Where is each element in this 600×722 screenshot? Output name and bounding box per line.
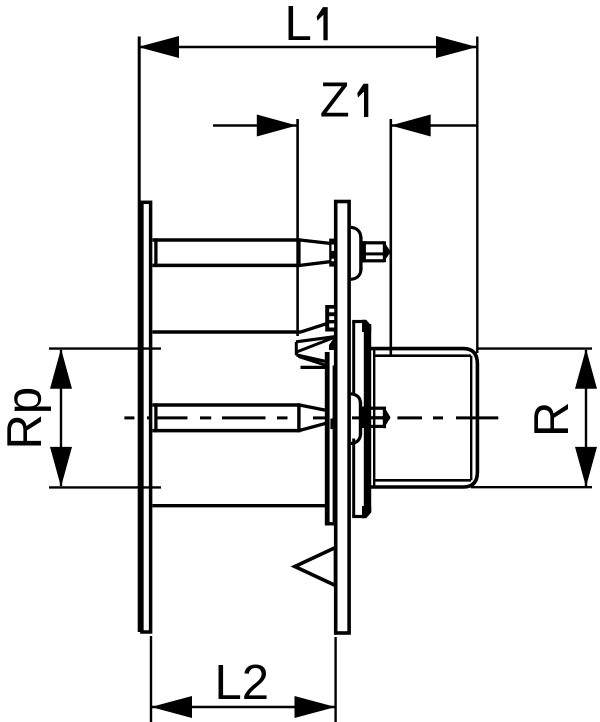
part: hub ring left edge lower segment	[352, 439, 355, 517]
part: left flange plate 1	[142, 202, 151, 632]
part: top screw left end face	[154, 238, 157, 267]
part: claw lower outer diagonal	[297, 355, 329, 362]
dimension R top extension line	[477, 347, 592, 349]
part: middle screw right end face	[297, 403, 300, 432]
part: middle stud trumpet face	[359, 402, 362, 435]
part: male thread end chamfer line	[470, 356, 472, 481]
part: middle screw taper bottom	[299, 423, 327, 430]
part: middle screw shaft top edge	[153, 403, 300, 407]
part: top stud crest top	[361, 241, 384, 244]
svg-text:L: L	[285, 0, 312, 51]
part: middle stud cone point	[384, 407, 390, 428]
part: socket inner line above middle screw	[333, 366, 336, 523]
part: hidden screw tip ladder	[325, 305, 337, 332]
dimension Z1 right arrow	[391, 115, 431, 137]
part: top screw taper top	[299, 240, 330, 244]
dimension Z1 left tail line	[213, 124, 297, 126]
part: middle stud trumpet bottom curve	[351, 434, 361, 444]
part: middle screw taper top	[299, 405, 327, 411]
part: top stud chamfer line	[383, 241, 386, 262]
part: top stud middle line	[361, 252, 384, 255]
part: body bottom edge	[153, 504, 326, 507]
part: hub ring bottom chamfer	[362, 506, 371, 518]
part: hub face bar	[364, 324, 371, 512]
part: socket bottom cap	[325, 522, 337, 525]
dimension L2 right extension line	[334, 637, 336, 722]
part: top stud crest bottom	[361, 259, 384, 262]
part: middle screw neck block	[330, 419, 335, 430]
dimension Rp bottom extension line	[49, 486, 161, 488]
part: middle stud collar	[360, 407, 366, 428]
part: middle screw shaft bottom edge	[153, 429, 300, 433]
part: top screw threaded tip block	[329, 239, 336, 267]
centerline	[124, 416, 134, 419]
part: claw bottom edge	[301, 366, 330, 369]
dimension R bottom extension line	[471, 486, 592, 488]
svg-text:Rp: Rp	[0, 387, 52, 450]
part: body top edge	[153, 330, 302, 333]
part: middle stud middle line	[371, 416, 384, 419]
dimension Z1 left extension line	[296, 119, 299, 336]
part: hidden screw taper diagonal	[301, 323, 327, 332]
part: male thread root top line	[374, 354, 471, 357]
part: middle stud chamfer line	[383, 407, 386, 429]
part: top screw shaft bottom edge	[153, 264, 300, 268]
part: claw bar above middle screw	[325, 352, 330, 525]
part: middle screw left end face	[154, 403, 157, 432]
part: top stud trumpet face	[359, 237, 362, 271]
dimension R down arrow	[575, 447, 597, 487]
part: male thread crest outline	[368, 349, 477, 487]
part: claw lower inner diagonal	[299, 357, 329, 367]
part: middle stud trumpet top curve	[351, 394, 361, 404]
part: hub ring top chamfer	[362, 320, 371, 332]
part: hub ring bottom edge	[352, 515, 364, 518]
dimension L2 line	[151, 706, 336, 708]
part: middle stud crest top	[359, 407, 384, 410]
part: middle stud crest bottom	[359, 425, 384, 428]
dimension L1 left extension line	[138, 37, 141, 633]
part: male thread root bottom line	[374, 479, 471, 482]
dimension Rp up arrow	[50, 349, 72, 389]
dimension Z1 left arrow	[257, 115, 297, 137]
dimension L1 line	[138, 46, 477, 48]
dimension L1 left arrow	[138, 36, 179, 58]
part: flow direction triangle marker	[295, 548, 336, 586]
part: top stud trumpet bottom curve	[351, 270, 361, 280]
dimension L1 right extension line	[476, 37, 478, 354]
part: male thread start line	[373, 349, 375, 487]
part: top stud cone point	[384, 242, 390, 262]
svg-text:Z: Z	[320, 74, 350, 128]
dimension L2 right arrow	[295, 696, 336, 718]
dimension L2 left extension line	[150, 636, 152, 722]
dimension L1 right arrow	[436, 36, 477, 58]
part: claw upper outer diagonal	[296, 337, 336, 342]
part: claw mouth edge	[295, 342, 298, 355]
dimension L2 left arrow	[151, 696, 192, 718]
svg-text:L2: L2	[215, 656, 270, 710]
part: top screw taper bottom	[299, 262, 330, 266]
dimension Rp down arrow	[50, 447, 72, 487]
dimension R line	[585, 350, 587, 486]
dimension Z1 right tail line	[391, 124, 478, 126]
part: top screw right end face	[297, 238, 300, 267]
part: hub ring top edge	[352, 320, 364, 323]
part: top stud trumpet top curve	[351, 227, 361, 238]
dimension Rp line	[60, 350, 62, 486]
svg-text:R: R	[525, 402, 579, 437]
part: top stud collar	[361, 241, 366, 262]
part: top screw shaft top edge	[153, 238, 300, 242]
part: claw throat fill	[329, 338, 337, 350]
dimension Z1 right extension line	[389, 119, 392, 356]
dimension R up arrow	[575, 349, 597, 389]
part: hub ring left edge upper segment	[352, 322, 355, 395]
dimension Rp top extension line	[49, 347, 161, 349]
part: claw inner cone diagonal	[297, 338, 335, 353]
part: right wall plate 2	[336, 202, 349, 634]
